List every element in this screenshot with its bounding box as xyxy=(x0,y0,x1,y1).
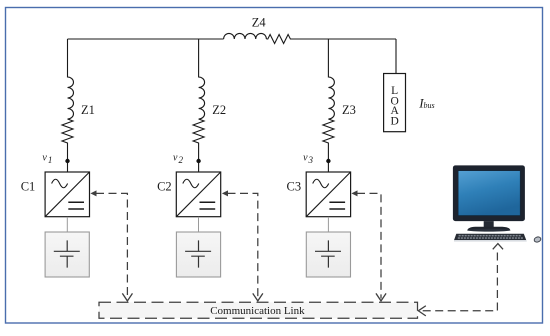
svg-text:C2: C2 xyxy=(157,179,172,193)
svg-text:v3: v3 xyxy=(303,152,313,165)
svg-text:Ibus: Ibus xyxy=(418,95,434,110)
svg-text:Z1: Z1 xyxy=(81,103,95,117)
svg-text:Z3: Z3 xyxy=(342,103,356,117)
svg-text:Communication Link: Communication Link xyxy=(210,305,305,317)
svg-text:Z4: Z4 xyxy=(252,15,267,29)
svg-text:Z2: Z2 xyxy=(212,103,226,117)
svg-text:v2: v2 xyxy=(173,152,183,165)
svg-text:C1: C1 xyxy=(21,179,36,193)
svg-text:D: D xyxy=(390,115,398,127)
svg-text:C3: C3 xyxy=(287,179,302,193)
svg-text:v1: v1 xyxy=(42,152,52,165)
